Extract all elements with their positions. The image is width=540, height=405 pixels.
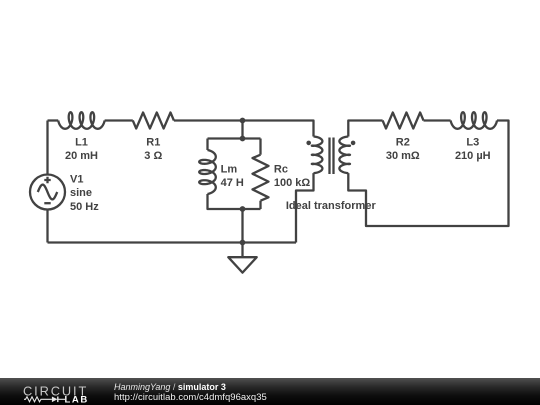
svg-text:V1: V1 (70, 174, 83, 186)
svg-text:20 mH: 20 mH (65, 150, 98, 162)
wire node A down to parallel box top (241, 121, 243, 139)
transformer T1 secondary winding (339, 137, 350, 174)
inductor L1 (58, 112, 104, 129)
wire L3 to right rail, down, and secondary bottom loop (348, 121, 508, 227)
svg-text:Rc: Rc (274, 163, 288, 175)
node box-bottom junction dot (240, 206, 246, 212)
svg-text:R2: R2 (396, 136, 410, 148)
inductor L3 (451, 112, 497, 129)
wire top-left horizontal from left rail through to transformer primary (48, 119, 59, 121)
wire R1 to transformer primary top, corner down (174, 121, 314, 137)
node A top junction dot (240, 118, 246, 124)
wire box bottom to ground rail (241, 209, 243, 243)
footer bar (0, 378, 540, 405)
transformer T1 primary winding (312, 137, 323, 174)
wire Rc bottom leg (259, 201, 261, 209)
wire bottom ground rail (48, 241, 297, 243)
V1 sine wave (38, 185, 57, 200)
svg-text:47 H: 47 H (221, 177, 244, 189)
wire left rail above V1 (46, 121, 48, 175)
wire left rail below V1 (46, 210, 48, 243)
svg-text:50 Hz: 50 Hz (70, 201, 99, 213)
wire Rc top leg (259, 139, 261, 155)
svg-text:LAB: LAB (65, 394, 89, 405)
svg-text:Lm: Lm (221, 163, 238, 175)
svg-text:L3: L3 (466, 136, 479, 148)
svg-text:L1: L1 (75, 136, 88, 148)
wire R2 to L3 (424, 119, 451, 121)
resistor Rc (253, 155, 269, 201)
V1 plus sign (44, 177, 50, 183)
footer attribution text (114, 382, 267, 404)
ground symbol (241, 243, 243, 258)
resistor R2 (383, 113, 424, 129)
wire L1 to R1 (105, 119, 133, 121)
wire Lm bottom leg (208, 194, 261, 209)
inductor Lm (199, 150, 216, 194)
svg-text:sine: sine (70, 187, 92, 199)
svg-text:Ideal transformer: Ideal transformer (286, 200, 377, 212)
V1 minus sign (44, 202, 50, 204)
CircuitLab logo (23, 378, 98, 405)
wire Lm top leg (206, 139, 208, 151)
svg-text:3 Ω: 3 Ω (144, 150, 162, 162)
voltage source V1 circle (30, 175, 65, 210)
svg-text:30 mΩ: 30 mΩ (386, 150, 420, 162)
transformer secondary phase dot (351, 141, 356, 146)
node box-top junction dot (240, 136, 246, 142)
wire secondary top to R2 (348, 121, 382, 137)
svg-text:R1: R1 (146, 136, 160, 148)
transformer primary phase dot (306, 141, 311, 146)
wire primary bottom jog to ground rail (296, 173, 314, 242)
transformer core lines (330, 138, 334, 175)
resistor R1 (133, 113, 174, 129)
svg-text:100 kΩ: 100 kΩ (274, 177, 311, 189)
node ground junction dot (240, 240, 246, 246)
wire parallel box top rail (208, 137, 261, 139)
svg-text:210 µH: 210 µH (455, 150, 491, 162)
